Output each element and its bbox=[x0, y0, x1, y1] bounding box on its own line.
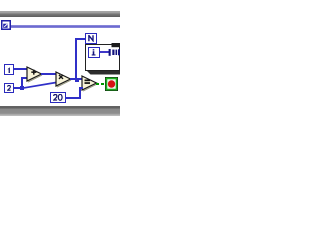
add function triangle bbox=[26, 66, 44, 84]
numeric constant 2 bbox=[4, 83, 14, 94]
wire i to indicator bbox=[100, 51, 110, 53]
multiply function triangle bbox=[55, 71, 73, 89]
toolbar bottom edge bar bbox=[0, 11, 120, 17]
wire junction right to equal top input bbox=[79, 78, 84, 80]
iteration terminal i bbox=[88, 47, 100, 58]
wire add output to multiply top input bbox=[41, 73, 56, 75]
equal function triangle bbox=[81, 75, 99, 93]
numeric constant 1 bbox=[4, 64, 14, 75]
wire into equal lower input bbox=[79, 87, 84, 89]
boolean dashed wire equal to LED bbox=[96, 83, 105, 85]
numeric constant 20 bbox=[50, 92, 66, 103]
wire into N terminal bbox=[75, 38, 85, 40]
diagonal wire junction to multiply lower input bbox=[20, 80, 57, 90]
wire const20 right bbox=[65, 97, 81, 99]
wire multiply output to junction bbox=[70, 78, 76, 80]
wire const1 to add top input bbox=[14, 68, 28, 70]
for loop white frame bbox=[85, 44, 120, 71]
bottom scrollbar bar bbox=[0, 106, 120, 116]
wire junction up branch bbox=[21, 77, 23, 87]
purple refnum wire bbox=[11, 25, 120, 28]
junction dot on const2 wire bbox=[20, 86, 24, 90]
wire junction up to N corner bbox=[75, 38, 77, 79]
junction dot at N branch bbox=[75, 78, 79, 82]
for loop frame bottom shadow bbox=[85, 71, 120, 75]
indicator terminal glyphs (clipped at right edge) bbox=[107, 42, 120, 58]
LED boolean terminal bbox=[105, 77, 118, 91]
wire into add lower input bbox=[21, 77, 28, 79]
wire const2 to junction bbox=[14, 87, 22, 89]
refnum control terminal icon bbox=[1, 20, 11, 30]
wire const20 step up bbox=[79, 87, 81, 98]
loop count terminal N bbox=[85, 33, 97, 44]
